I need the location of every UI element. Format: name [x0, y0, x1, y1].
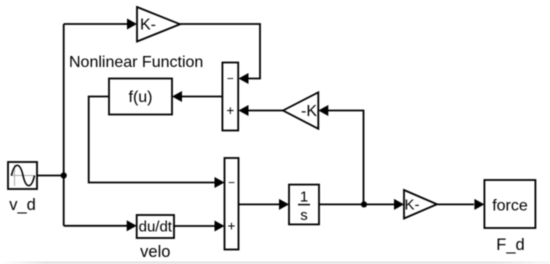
svg-text:−: − [228, 176, 235, 190]
faint bottom window-edge line [0, 262, 550, 264]
arrowhead into gain K-2 [394, 199, 404, 210]
node B: junction dot after integrator [361, 201, 367, 207]
wire: f(u) output down to Sum2 minus input [89, 97, 215, 183]
wire: main vertical from gain K-1 input down to du/dt branch [63, 24, 65, 226]
arrowhead into f(u) input [172, 91, 182, 102]
arrowhead into gain -K input [318, 105, 328, 116]
arrowhead into Sum2 plus port [215, 221, 225, 232]
svg-text:−: − [227, 72, 234, 86]
wire: junction down-branch to du/dt input [64, 225, 128, 227]
arrowhead into Sum1 plus port [239, 105, 249, 116]
wire: gain K-1 output to Sum1 minus input [180, 24, 260, 79]
svg-text:K-: K- [140, 17, 156, 34]
wire: v_d output to junction [37, 175, 64, 177]
svg-text:1: 1 [300, 189, 308, 206]
svg-text:s: s [300, 207, 308, 224]
svg-text:du/dt: du/dt [139, 219, 173, 236]
svg-text:+: + [228, 219, 236, 234]
gain K-1 (top gain) [137, 7, 180, 42]
svg-text:velo: velo [140, 243, 170, 261]
wire: gain K-2 output to force block input [437, 203, 474, 205]
integrator 1/s [289, 185, 319, 225]
svg-text:Nonlinear Function: Nonlinear Function [69, 54, 203, 71]
sink block force [484, 180, 535, 228]
sum block Sum1 (top) [222, 63, 238, 131]
gain K-2 (right gain) [404, 190, 437, 219]
Fcn block f(u) [109, 79, 172, 115]
svg-text:force: force [492, 198, 528, 215]
svg-text:-K: -K [301, 103, 317, 120]
svg-text:f(u): f(u) [129, 89, 153, 106]
arrowhead into Sum1 minus port [239, 73, 249, 84]
svg-text:F_d: F_d [496, 236, 524, 254]
node A: junction dot at v_d output [61, 172, 67, 178]
svg-text:K-: K- [405, 197, 420, 214]
arrowhead into force block [474, 199, 484, 210]
wire: integrator output to gain K-2 input [319, 203, 394, 205]
svg-text:+: + [226, 103, 234, 118]
sum block Sum2 (bottom) [225, 158, 239, 250]
gain -K (leftward gain) [283, 92, 318, 129]
source block v_d (sine wave) [8, 162, 37, 189]
wire: Sum2 output to integrator input [239, 203, 280, 205]
arrowhead into gain K-1 [127, 19, 137, 30]
wire: du/dt output to Sum2 plus input [174, 225, 215, 227]
wire: gain -K output to Sum1 plus input [248, 110, 283, 112]
derivative block du/dt [137, 215, 174, 238]
arrowhead into integrator [279, 199, 289, 210]
svg-text:v_d: v_d [9, 196, 36, 214]
wire: feedback from junction node B up to gain -K input [328, 111, 364, 205]
wire: Sum1 output to f(u) input [181, 96, 222, 98]
arrowhead into Sum2 minus port [215, 177, 225, 188]
wire: junction up-branch to gain K-1 input [64, 23, 128, 25]
arrowhead into du/dt [127, 220, 137, 231]
